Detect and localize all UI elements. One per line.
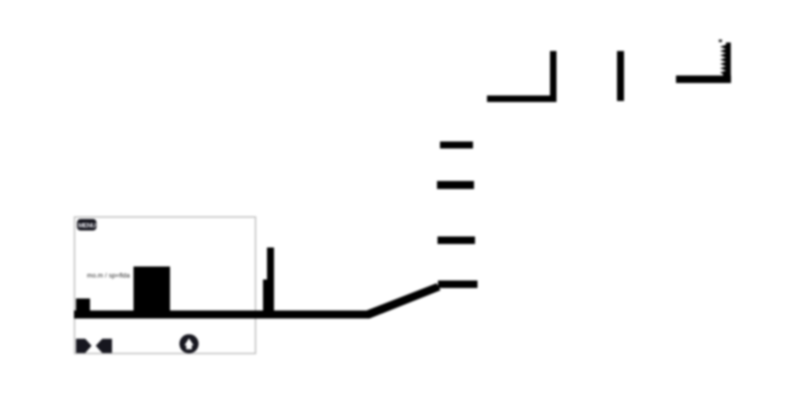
ground bar [74,311,368,319]
right button [96,339,112,353]
sawtooth top dot [719,40,722,43]
svg-text:MENU: MENU [78,222,96,229]
embed box frame [75,217,256,354]
ledge 2 sawtooth vertical [720,43,731,84]
ramp [367,283,441,318]
badge [77,219,97,231]
jump button arrow [184,338,193,349]
jump button circle [179,334,198,353]
left button [76,339,92,353]
platform dash 2 [437,181,474,189]
mid wall bar [617,51,624,101]
platform dash 3 [438,237,476,245]
tower tall bar [267,248,274,317]
big block [134,267,171,313]
step block [76,299,90,313]
ledge 2 horizontal [676,76,731,84]
svg-text:mo.m / sp=flda: mo.m / sp=flda [87,273,130,280]
ledge 1 vertical [550,51,557,102]
tower short bar [263,280,269,317]
platform dash 4 [438,281,478,289]
ledge 1 horizontal [487,96,557,103]
platform dash 1 [440,142,473,149]
